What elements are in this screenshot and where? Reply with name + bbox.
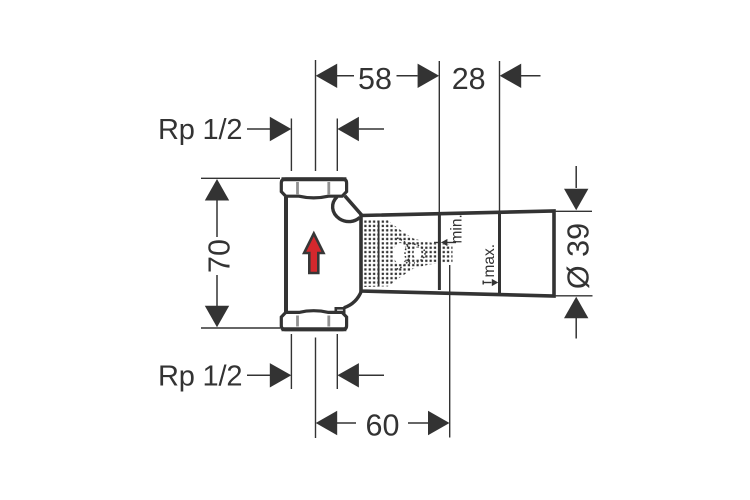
label Rp 1/2 top [158,114,384,171]
max section line [498,213,501,295]
svg-text:Ø 39: Ø 39 [562,223,596,289]
dimension 70 [201,178,280,328]
upper transition ear arc [333,197,360,222]
label min. [434,214,466,246]
svg-text:max.: max. [481,244,498,278]
svg-text:60: 60 [366,409,400,443]
hex nut bottom [281,311,346,330]
label max. [481,244,499,286]
dimension diameter 39 [553,166,596,339]
stipple band [364,220,388,287]
stipple funnel [388,220,453,287]
svg-text:28: 28 [452,62,486,96]
upper transition diagonal [345,196,363,216]
lower transition curve with step [336,291,362,313]
hex nut top [281,179,346,198]
red flow arrow [304,234,323,274]
svg-text:58: 58 [358,62,392,96]
dimension 28 [452,61,541,212]
min section line [438,214,441,291]
sleeve outline (conical) [361,211,554,296]
svg-text:70: 70 [203,239,237,273]
dimension 60 [316,265,450,443]
svg-text:Rp 1/2: Rp 1/2 [158,114,242,146]
valve body left edge [284,197,288,313]
dimension 58 [316,60,440,213]
svg-text:Rp 1/2: Rp 1/2 [158,360,242,392]
svg-text:min.: min. [449,214,466,243]
sleeve inner thin line [378,221,380,286]
label Rp 1/2 bottom [158,334,384,392]
